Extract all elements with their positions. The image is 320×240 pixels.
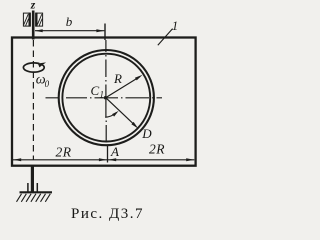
- leader line for label 1: [158, 29, 173, 46]
- b arrow left: [35, 29, 43, 32]
- vertical centerline: [105, 40, 107, 141]
- b arrow right: [96, 29, 104, 32]
- svg-text:C: C: [91, 83, 100, 98]
- bearing (top) left block: [23, 13, 30, 27]
- circle inner: [62, 54, 150, 142]
- bottom bearing walls: [27, 183, 29, 192]
- angle arc with arrow: [105, 112, 116, 117]
- svg-text:D: D: [141, 126, 152, 141]
- svg-text:A: A: [110, 144, 119, 159]
- svg-text:2R: 2R: [149, 142, 165, 157]
- circle outer: [59, 50, 154, 145]
- svg-text:b: b: [66, 14, 73, 29]
- svg-text:Рис. Д3.7: Рис. Д3.7: [71, 206, 144, 222]
- svg-text:R: R: [113, 71, 122, 86]
- R arrow: [106, 77, 140, 98]
- bearing (top) right block: [36, 13, 43, 27]
- horizontal centerline: [46, 97, 163, 99]
- b dimension line: [35, 30, 104, 32]
- ground hatching: [17, 194, 51, 202]
- plate 1 (rectangle): [12, 38, 196, 166]
- rotation arrow (ellipse arc): [23, 63, 44, 72]
- center C1 dot: [104, 96, 107, 99]
- A tick: [107, 145, 109, 163]
- shaft (top, solid thick): [32, 11, 35, 40]
- ground line: [20, 191, 53, 193]
- svg-text:1: 1: [172, 19, 178, 33]
- svg-text:1: 1: [100, 90, 105, 100]
- svg-text:2R: 2R: [56, 144, 72, 159]
- b extension tick (top of circle centerline): [104, 24, 106, 41]
- svg-text:0: 0: [45, 79, 50, 89]
- svg-text:z: z: [30, 0, 36, 12]
- bottom dimension line: [13, 159, 194, 161]
- D arrow: [106, 98, 133, 124]
- bottom shaft: [31, 166, 34, 192]
- shaft axis (dashed): [32, 40, 34, 160]
